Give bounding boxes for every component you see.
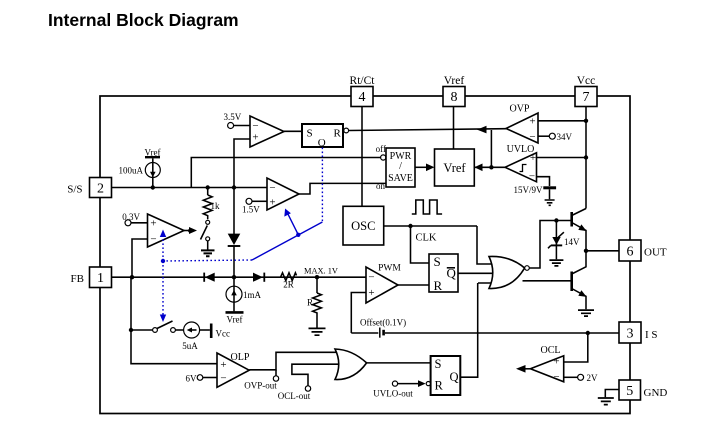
svg-text:1: 1 xyxy=(97,271,104,286)
svg-text:on: on xyxy=(376,181,386,191)
svg-text:2R: 2R xyxy=(283,280,294,290)
svg-text:0.3V: 0.3V xyxy=(122,212,140,222)
svg-text:R: R xyxy=(334,128,342,140)
svg-text:+: + xyxy=(269,197,275,209)
svg-text:OSC: OSC xyxy=(351,219,375,233)
svg-text:8: 8 xyxy=(451,90,458,105)
svg-text:GND: GND xyxy=(644,387,668,399)
svg-text:OVP: OVP xyxy=(509,104,529,115)
svg-text:OCL-out: OCL-out xyxy=(278,391,311,401)
svg-text:+: + xyxy=(368,287,374,299)
svg-text:1k: 1k xyxy=(211,201,221,211)
svg-text:−: − xyxy=(529,131,535,143)
svg-text:2V: 2V xyxy=(587,373,599,383)
svg-text:1.5V: 1.5V xyxy=(242,205,260,215)
svg-text:−: − xyxy=(269,182,275,194)
svg-text:Vcc: Vcc xyxy=(577,75,596,87)
svg-text:off: off xyxy=(376,144,386,154)
svg-text:S/S: S/S xyxy=(67,184,82,196)
svg-text:15V/9V: 15V/9V xyxy=(514,185,544,195)
svg-text:+: + xyxy=(252,131,258,143)
svg-text:3: 3 xyxy=(627,327,634,342)
svg-text:2: 2 xyxy=(97,182,104,197)
svg-text:34V: 34V xyxy=(557,132,573,142)
svg-text:PWM: PWM xyxy=(378,264,401,274)
svg-text:6V: 6V xyxy=(186,374,198,384)
svg-text:1mA: 1mA xyxy=(243,290,262,300)
svg-text:Vref: Vref xyxy=(444,75,465,87)
svg-text:−: − xyxy=(529,170,535,182)
svg-text:SAVE: SAVE xyxy=(388,173,413,184)
svg-text:Q: Q xyxy=(450,370,459,384)
svg-text:MAX. 1V: MAX. 1V xyxy=(304,267,338,276)
svg-text:+: + xyxy=(530,152,536,164)
svg-text:OUT: OUT xyxy=(644,247,667,259)
svg-text:7: 7 xyxy=(583,90,590,105)
svg-text:5: 5 xyxy=(626,384,633,399)
svg-text:+: + xyxy=(529,115,535,127)
svg-text:S: S xyxy=(434,254,441,269)
svg-text:−: − xyxy=(368,272,374,284)
svg-text:Rt/Ct: Rt/Ct xyxy=(350,75,376,87)
svg-text:4: 4 xyxy=(359,90,366,105)
svg-text:Vref: Vref xyxy=(227,315,243,325)
svg-text:Vcc: Vcc xyxy=(216,329,231,339)
svg-text:6: 6 xyxy=(627,245,634,260)
svg-text:OVP-out: OVP-out xyxy=(244,381,277,391)
svg-text:Q: Q xyxy=(318,137,326,149)
svg-text:CLK: CLK xyxy=(416,233,437,244)
svg-text:R: R xyxy=(307,298,313,308)
svg-text:Vref: Vref xyxy=(145,148,161,158)
svg-text:−: − xyxy=(553,371,559,383)
svg-text:5uA: 5uA xyxy=(182,341,198,351)
svg-text:S: S xyxy=(307,128,313,140)
svg-text:I S: I S xyxy=(645,329,658,341)
svg-text:14V: 14V xyxy=(564,237,580,247)
svg-text:R: R xyxy=(434,278,443,293)
svg-text:OLP: OLP xyxy=(231,352,250,363)
svg-text:Offset(0.1V): Offset(0.1V) xyxy=(360,318,406,328)
svg-text:+: + xyxy=(553,356,559,368)
svg-text:−: − xyxy=(220,373,226,385)
svg-text:+: + xyxy=(150,218,156,230)
svg-text:S: S xyxy=(435,357,442,371)
svg-text:OCL: OCL xyxy=(541,345,561,356)
svg-text:FB: FB xyxy=(71,273,84,285)
svg-text:/: / xyxy=(399,161,402,172)
svg-text:100uA: 100uA xyxy=(119,166,144,176)
svg-text:3.5V: 3.5V xyxy=(224,112,242,122)
svg-text:−: − xyxy=(150,234,156,246)
svg-text:UVLO-out: UVLO-out xyxy=(373,389,413,399)
svg-text:Vref: Vref xyxy=(443,161,466,175)
svg-text:R: R xyxy=(435,379,444,393)
svg-text:+: + xyxy=(220,359,226,371)
